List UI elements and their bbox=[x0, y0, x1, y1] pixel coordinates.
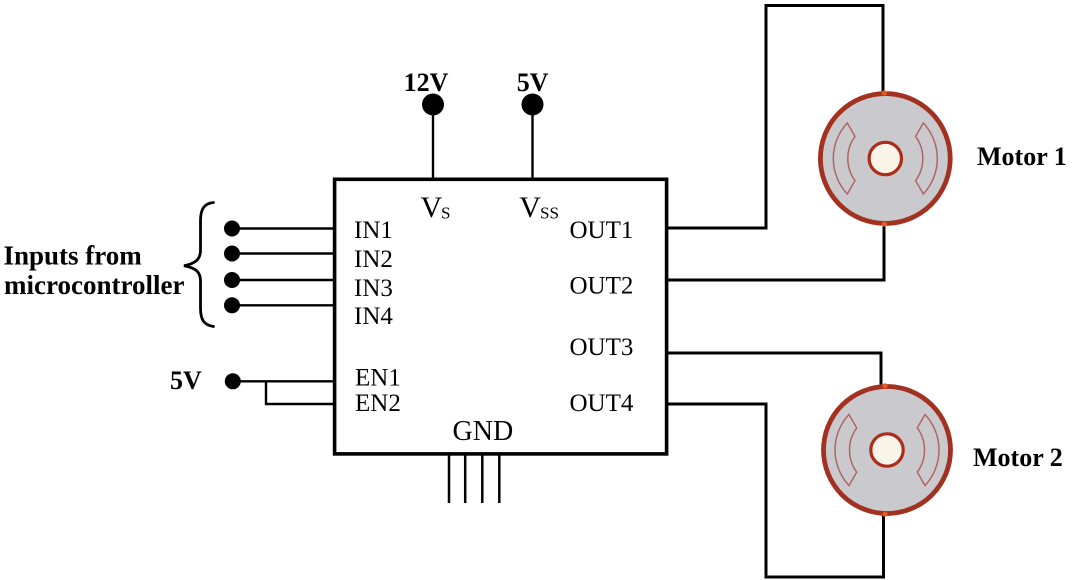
svg-text:IN1: IN1 bbox=[354, 217, 393, 244]
svg-text:IN3: IN3 bbox=[354, 275, 393, 302]
svg-text:OUT1: OUT1 bbox=[570, 217, 634, 244]
svg-text:Inputs from: Inputs from bbox=[4, 240, 143, 270]
svg-text:GND: GND bbox=[453, 416, 514, 447]
svg-text:5V: 5V bbox=[517, 68, 549, 97]
svg-text:Motor 1: Motor 1 bbox=[977, 142, 1067, 171]
svg-text:OUT4: OUT4 bbox=[570, 390, 634, 417]
svg-text:OUT3: OUT3 bbox=[570, 334, 634, 361]
svg-text:V: V bbox=[519, 191, 541, 224]
svg-text:Motor 2: Motor 2 bbox=[973, 443, 1063, 472]
svg-text:EN1: EN1 bbox=[355, 364, 401, 391]
svg-text:12V: 12V bbox=[404, 68, 449, 97]
svg-text:IN4: IN4 bbox=[354, 303, 393, 330]
svg-text:microcontroller: microcontroller bbox=[4, 270, 184, 300]
svg-text:S: S bbox=[441, 204, 450, 223]
svg-text:5V: 5V bbox=[170, 366, 202, 395]
svg-text:OUT2: OUT2 bbox=[570, 273, 634, 300]
svg-text:SS: SS bbox=[540, 204, 559, 223]
svg-text:EN2: EN2 bbox=[355, 390, 401, 417]
svg-text:V: V bbox=[421, 191, 443, 224]
svg-text:IN2: IN2 bbox=[354, 246, 393, 273]
